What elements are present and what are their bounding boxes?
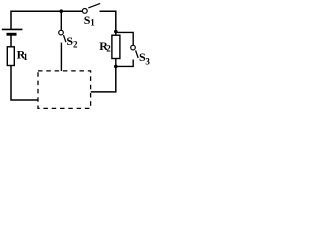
wire battery to R1 [10, 35, 12, 47]
node junction dot bottom of parallel section [114, 65, 118, 69]
node junction dot top of parallel section [114, 30, 118, 34]
switch S1 contact circle [82, 9, 87, 14]
svg-text:2: 2 [73, 40, 78, 50]
wire S3 down and left to junction [116, 60, 133, 67]
svg-text:2: 2 [106, 43, 111, 53]
switch S2 blade [64, 35, 66, 42]
wire R2 bottom to junction [115, 59, 117, 67]
wire R1 down and bottom-left to dashed box [11, 66, 38, 101]
svg-text:1: 1 [23, 52, 28, 62]
wire junction down to S2 [60, 11, 62, 30]
resistor R2 [112, 35, 120, 58]
wire top-left corner and top wire to S1 [11, 11, 83, 29]
node junction dot on top wire [60, 9, 64, 13]
wire S3 branch top [116, 32, 133, 45]
wire junction down and left to dashed box [91, 66, 116, 92]
switch S3 contact circle [131, 45, 136, 50]
switch S2 contact circle [59, 30, 64, 35]
switch S1 blade [88, 3, 100, 8]
switch S3 blade [136, 50, 139, 58]
svg-text:1: 1 [90, 18, 95, 28]
resistor R1 [7, 47, 14, 66]
svg-text:3: 3 [145, 57, 150, 67]
wire S2 down to dashed box [60, 43, 62, 71]
battery long plate [2, 28, 23, 30]
dashed box [38, 71, 91, 109]
wire S1 right, top-right corner, down to junction [100, 11, 116, 35]
battery short plate [7, 33, 17, 36]
